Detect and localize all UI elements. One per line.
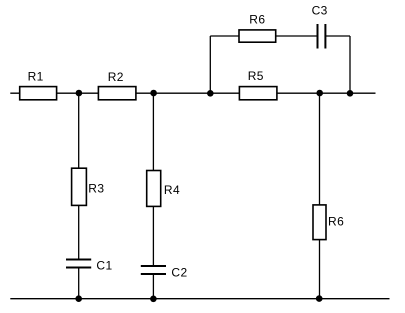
node A (R1/R2/R3 junction) bbox=[76, 90, 83, 97]
svg-text:C1: C1 bbox=[96, 259, 112, 273]
node F (C1 to bottom rail) bbox=[75, 295, 82, 302]
wire top rail bbox=[10, 92, 375, 94]
capacitor C2 bbox=[141, 266, 188, 280]
wire branch 1 lower (C1 bottom plate to bottom rail) bbox=[78, 268, 80, 299]
resistor R6 (feedback, top) bbox=[239, 13, 276, 43]
wire feedback left vertical (node C up) bbox=[209, 36, 211, 93]
node C (feedback tap junction) bbox=[207, 90, 214, 97]
capacitor C3 bbox=[312, 4, 328, 49]
wire feedback top horizontal right (C3 right plate to corner) bbox=[326, 35, 350, 37]
resistor R1 bbox=[20, 70, 57, 100]
svg-text:R5: R5 bbox=[248, 69, 264, 83]
wire branch 1 upper (node A to C1 top plate) bbox=[78, 93, 80, 259]
wire bottom rail bbox=[10, 298, 389, 300]
wire branch 3 (node D to bottom rail through R6) bbox=[319, 93, 321, 299]
node D (R5/R6 shunt junction) bbox=[316, 90, 323, 97]
svg-text:R4: R4 bbox=[164, 183, 180, 197]
resistor R2 bbox=[98, 70, 135, 100]
svg-text:C2: C2 bbox=[171, 266, 187, 280]
wire feedback top horizontal left (to C3 left plate) bbox=[210, 35, 317, 37]
resistor R3 bbox=[72, 168, 105, 205]
svg-text:R6: R6 bbox=[249, 13, 265, 27]
node G (C2 to bottom rail) bbox=[150, 296, 157, 303]
node B (R2/R4 junction) bbox=[150, 90, 157, 97]
wire branch 2 lower (C2 bottom plate to bottom rail) bbox=[152, 275, 154, 299]
svg-text:R2: R2 bbox=[108, 70, 124, 84]
svg-text:C3: C3 bbox=[312, 4, 328, 18]
svg-text:R1: R1 bbox=[28, 70, 44, 84]
node E (C3/R5 output junction) bbox=[347, 90, 354, 97]
wire branch 2 upper (node B to C2 top plate) bbox=[152, 93, 154, 266]
svg-text:R3: R3 bbox=[88, 181, 104, 195]
resistor R5 bbox=[239, 69, 277, 100]
node H (R6 shunt to bottom rail) bbox=[316, 295, 323, 302]
capacitor C1 bbox=[66, 259, 113, 273]
wire feedback right vertical (down to node E) bbox=[349, 36, 351, 93]
svg-text:R6: R6 bbox=[328, 214, 344, 228]
resistor R6 (shunt, bottom right) bbox=[313, 205, 344, 240]
resistor R4 bbox=[147, 171, 180, 207]
